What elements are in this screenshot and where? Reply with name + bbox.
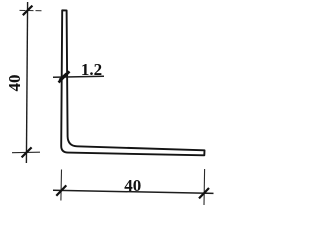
left dimension top tick xyxy=(23,6,33,16)
left dimension bottom tick xyxy=(22,147,32,157)
left dimension top extension line xyxy=(20,9,44,11)
left dimension bottom extension line xyxy=(12,151,40,154)
thickness dimension line 1.2 xyxy=(53,76,104,77)
thickness dimension tick xyxy=(59,71,70,82)
svg-text:40: 40 xyxy=(5,75,24,92)
bottom dimension left extension line xyxy=(60,170,63,201)
svg-text:1.2: 1.2 xyxy=(81,60,102,79)
angle profile outline (L-section) xyxy=(61,10,204,155)
svg-text:40: 40 xyxy=(124,176,141,195)
left dimension line (vertical) xyxy=(26,2,27,163)
bottom dimension right extension line xyxy=(203,169,206,205)
bottom dimension line (horizontal) xyxy=(53,190,214,193)
bottom dimension left tick xyxy=(56,185,66,195)
bottom dimension right tick xyxy=(199,188,209,198)
thickness dimension tick (second stroke of blob) xyxy=(60,74,67,81)
paper background xyxy=(0,0,218,211)
